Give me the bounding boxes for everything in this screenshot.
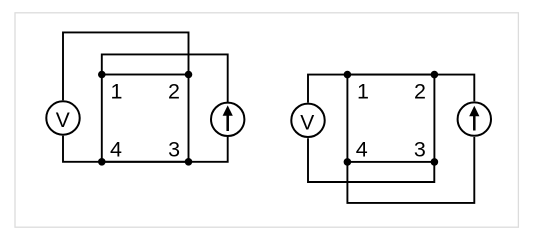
svg-text:1: 1 bbox=[357, 80, 369, 104]
svg-text:1: 1 bbox=[111, 80, 123, 104]
svg-text:V: V bbox=[300, 111, 314, 134]
svg-text:4: 4 bbox=[110, 138, 122, 162]
svg-text:2: 2 bbox=[414, 80, 426, 104]
svg-text:2: 2 bbox=[168, 80, 180, 104]
svg-text:V: V bbox=[56, 109, 70, 132]
svg-text:3: 3 bbox=[168, 138, 180, 162]
svg-text:3: 3 bbox=[414, 138, 426, 162]
svg-text:4: 4 bbox=[356, 138, 368, 162]
